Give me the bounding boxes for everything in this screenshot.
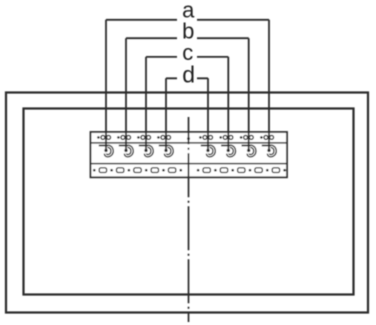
svg-text:d: d: [182, 62, 195, 88]
